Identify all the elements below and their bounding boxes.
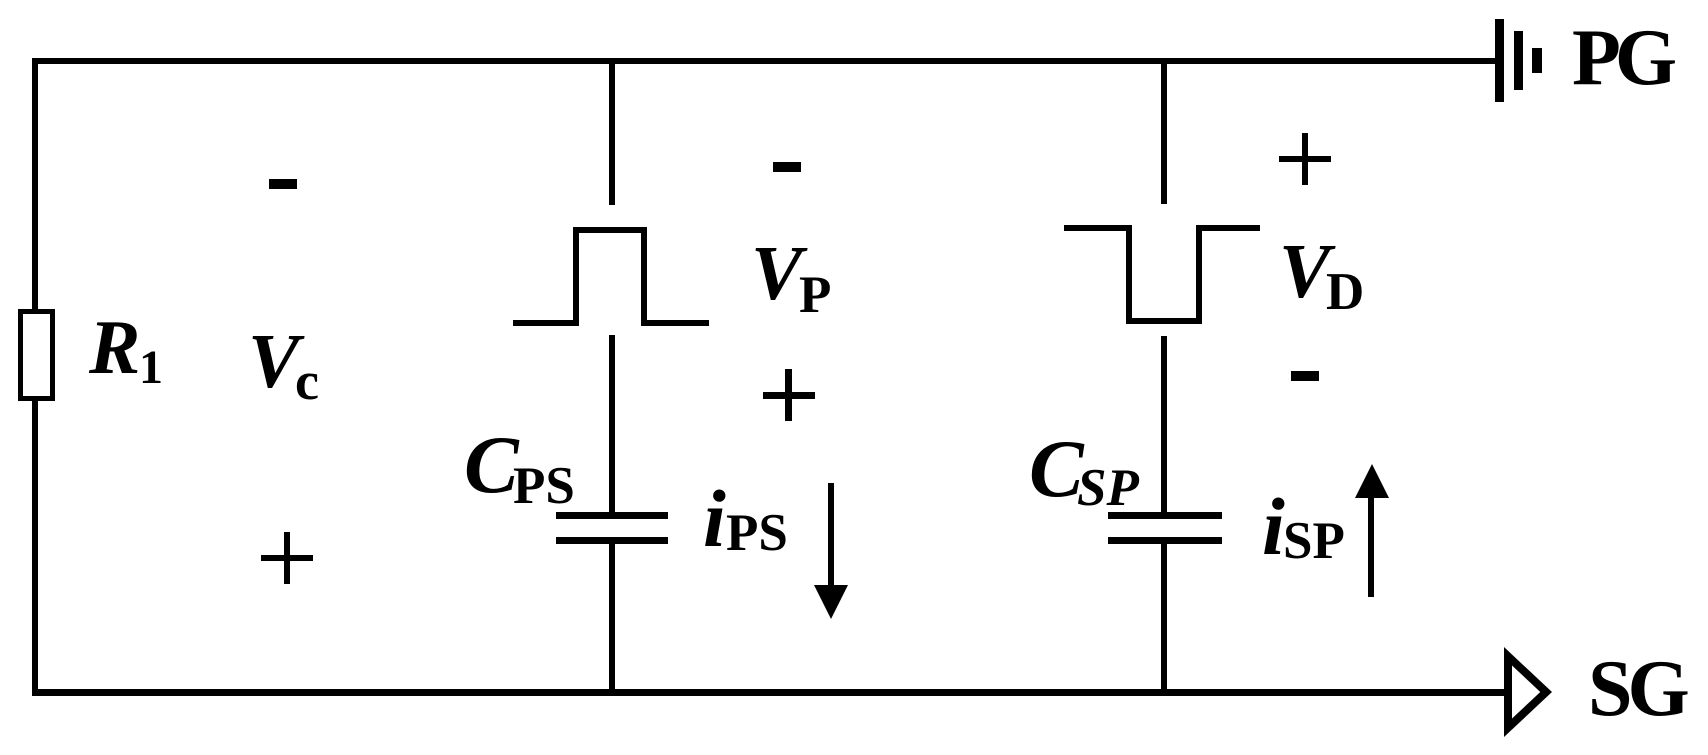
- wire top rail: [32, 58, 1496, 64]
- power ground PG symbol: [1495, 19, 1504, 102]
- label CSP: [1029, 428, 1084, 510]
- capacitor CSP top plate: [1108, 512, 1222, 519]
- label SG: [1588, 649, 1685, 729]
- label CPS: [464, 424, 519, 506]
- capacitor CPS top plate: [556, 512, 668, 519]
- label Vc: [248, 323, 299, 400]
- node VP minus: [773, 162, 801, 172]
- label iSP: [1262, 486, 1285, 568]
- wire left lower: [32, 401, 38, 696]
- current arrow iSP (up): [1368, 490, 1374, 597]
- wire branch1 mid: [609, 335, 615, 513]
- capacitor CSP bottom plate: [1108, 537, 1222, 544]
- signal ground SG symbol: [1500, 641, 1560, 745]
- pulse source VD (down pulse): [1064, 225, 1132, 231]
- label VD: [1279, 233, 1330, 310]
- node VD minus: [1291, 371, 1319, 381]
- resistor R1: [18, 309, 55, 401]
- node VD plus: [1279, 156, 1331, 162]
- wire branch2 lower: [1161, 544, 1167, 696]
- node Vc minus: [269, 179, 297, 189]
- current arrow iPS (down): [828, 483, 834, 590]
- label PG: [1572, 18, 1671, 98]
- label R1: [89, 309, 140, 386]
- wire branch2 mid: [1161, 336, 1167, 513]
- wire bottom rail: [32, 689, 1506, 696]
- wire branch2 upper: [1161, 64, 1167, 204]
- wire branch1 upper: [609, 64, 615, 205]
- capacitor CPS bottom plate: [556, 537, 668, 544]
- wire branch1 lower: [609, 544, 615, 696]
- wire left upper: [32, 58, 38, 309]
- label VP: [751, 235, 802, 312]
- node VP plus: [763, 392, 815, 399]
- pulse source VP (up pulse): [513, 320, 579, 326]
- label iPS: [703, 478, 726, 560]
- node Vc plus: [261, 555, 313, 561]
